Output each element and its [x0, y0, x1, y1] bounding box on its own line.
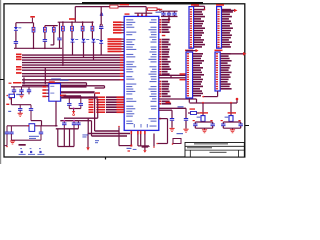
wire net A8 — [22, 75, 124, 76]
capacitor CA2 — [43, 40, 47, 50]
wire — [11, 139, 41, 141]
diode D4 — [82, 31, 90, 57]
wire net A3 — [22, 62, 124, 63]
wire J4 pin1 flag — [223, 52, 247, 56]
wire net A2 — [16, 59, 124, 61]
wire right supply rail — [190, 98, 239, 103]
capacitor C8 — [210, 120, 215, 128]
wire J4 bottom — [202, 91, 217, 98]
border frame — [0, 2, 249, 160]
wire staircase lower — [64, 118, 130, 136]
inductor L1 — [172, 139, 181, 145]
wire U2 outputs — [61, 85, 98, 118]
capacitor C19 — [4, 126, 9, 148]
wire net A4 — [22, 64, 124, 65]
transistor Q1 — [195, 102, 212, 122]
wire row18 right — [156, 118, 167, 145]
capacitor C12 — [19, 87, 23, 95]
wire center drop — [100, 7, 102, 25]
wire J3 bottom — [188, 98, 190, 103]
label net flag — [127, 148, 132, 152]
capacitor C15 — [29, 105, 33, 121]
title block — [185, 143, 244, 158]
jumper marks — [19, 148, 45, 155]
label Y1 value — [29, 136, 39, 139]
diode D2 — [14, 27, 21, 42]
label U1 pin names — [126, 19, 156, 127]
wire IC top supply pins — [137, 13, 147, 16]
ground — [10, 141, 15, 144]
connector J1 — [189, 4, 205, 48]
wire J3 pin1 — [186, 49, 199, 52]
ground — [230, 130, 235, 133]
wire — [195, 128, 212, 129]
label U1 right nets — [159, 19, 171, 105]
capacitor bank C2 C3 C4 — [156, 11, 178, 21]
wire net A1 — [16, 56, 124, 58]
wire SW1 — [6, 98, 31, 105]
connector J2 — [216, 4, 233, 48]
wire lower data lines — [89, 96, 125, 113]
wire U2 to crystal — [55, 101, 57, 127]
wire — [223, 128, 240, 129]
capacitor C10 — [238, 120, 243, 128]
ground — [18, 113, 23, 116]
capacitor C17 — [9, 126, 13, 140]
power flag VCC2 — [30, 16, 35, 23]
wire stub — [19, 144, 26, 146]
label bus name — [60, 80, 69, 81]
wire — [62, 31, 64, 66]
crystal Y1 — [27, 124, 34, 132]
wire net A5 — [16, 66, 124, 68]
label U1 left nets mid — [108, 38, 125, 52]
wire J1 pin1 — [194, 6, 206, 10]
capacitor bank C22-C24 — [56, 120, 81, 129]
capacitor pair C20 C21 — [60, 95, 83, 110]
power flag down — [72, 109, 75, 116]
capacitor C14 — [18, 105, 22, 113]
diode D1 — [99, 40, 103, 55]
wire vertical feeds — [24, 68, 45, 85]
capacitor C6 — [183, 108, 188, 132]
capacitor C9 — [221, 120, 226, 128]
resistor R1 — [110, 4, 129, 8]
capacitor C7 — [193, 120, 198, 128]
ground — [202, 130, 207, 133]
label xtal nets — [166, 102, 184, 134]
wire U2 input rail — [9, 83, 43, 87]
sheet edge shadow — [0, 0, 1, 164]
diode D5 — [92, 31, 100, 60]
capacitor C13 — [27, 87, 31, 95]
connector J3 — [185, 50, 204, 98]
wire net A7 — [16, 72, 124, 74]
capacitor C11 — [12, 87, 16, 95]
wire to crystal rail — [8, 111, 41, 126]
transistor Q2 — [223, 102, 240, 122]
resistor R6 — [62, 22, 65, 32]
wire to right rail — [159, 99, 197, 103]
resistor R12 — [188, 108, 200, 114]
wire net short1 — [13, 82, 87, 84]
wire net short2 — [22, 84, 87, 86]
wire right cap feeds — [159, 108, 186, 110]
wire net A0 — [16, 54, 124, 56]
wire left lower pin — [118, 126, 120, 146]
wire bottom rail — [14, 47, 62, 49]
resistor R2 — [148, 8, 163, 11]
capacitor C1 — [99, 27, 103, 40]
wire right long pair — [159, 73, 186, 80]
wire to flag — [86, 134, 89, 151]
connector J4 — [215, 50, 232, 91]
wire loop — [58, 129, 74, 147]
resistor R7 — [71, 22, 74, 32]
wire crystal rail — [7, 125, 58, 127]
node junction — [100, 24, 102, 26]
capacitor CA1 — [14, 42, 18, 49]
resistor R9 — [91, 22, 94, 32]
wire VCC rail A2 — [45, 25, 58, 27]
wire VCC top rail — [75, 7, 152, 23]
op-amp U1 microcontroller — [124, 13, 159, 130]
label nets — [82, 134, 99, 143]
capacitor CA3 — [57, 22, 61, 48]
resistor R3 — [32, 23, 35, 49]
ground — [19, 95, 24, 98]
capacitor C5 — [169, 110, 174, 131]
wire J2 net flag — [222, 9, 238, 12]
power flag down — [142, 147, 149, 153]
label U1 left nets upper — [113, 21, 124, 33]
resistor R8 — [81, 22, 84, 32]
diode D3 — [71, 31, 79, 55]
resistor R5 — [51, 26, 56, 45]
capacitor C18 — [39, 126, 43, 140]
op-amp U2 — [42, 78, 60, 101]
wire bus fold — [87, 83, 120, 131]
wire net A9 — [22, 79, 124, 80]
wire U1 bottom pins — [119, 131, 155, 150]
switch SW1 — [6, 94, 23, 100]
resistor R4 — [44, 26, 47, 40]
wire VCC rail B — [58, 18, 94, 23]
power flag VCC — [100, 12, 103, 16]
wire VCC rail A — [16, 23, 34, 27]
wire net A6 — [16, 69, 124, 71]
